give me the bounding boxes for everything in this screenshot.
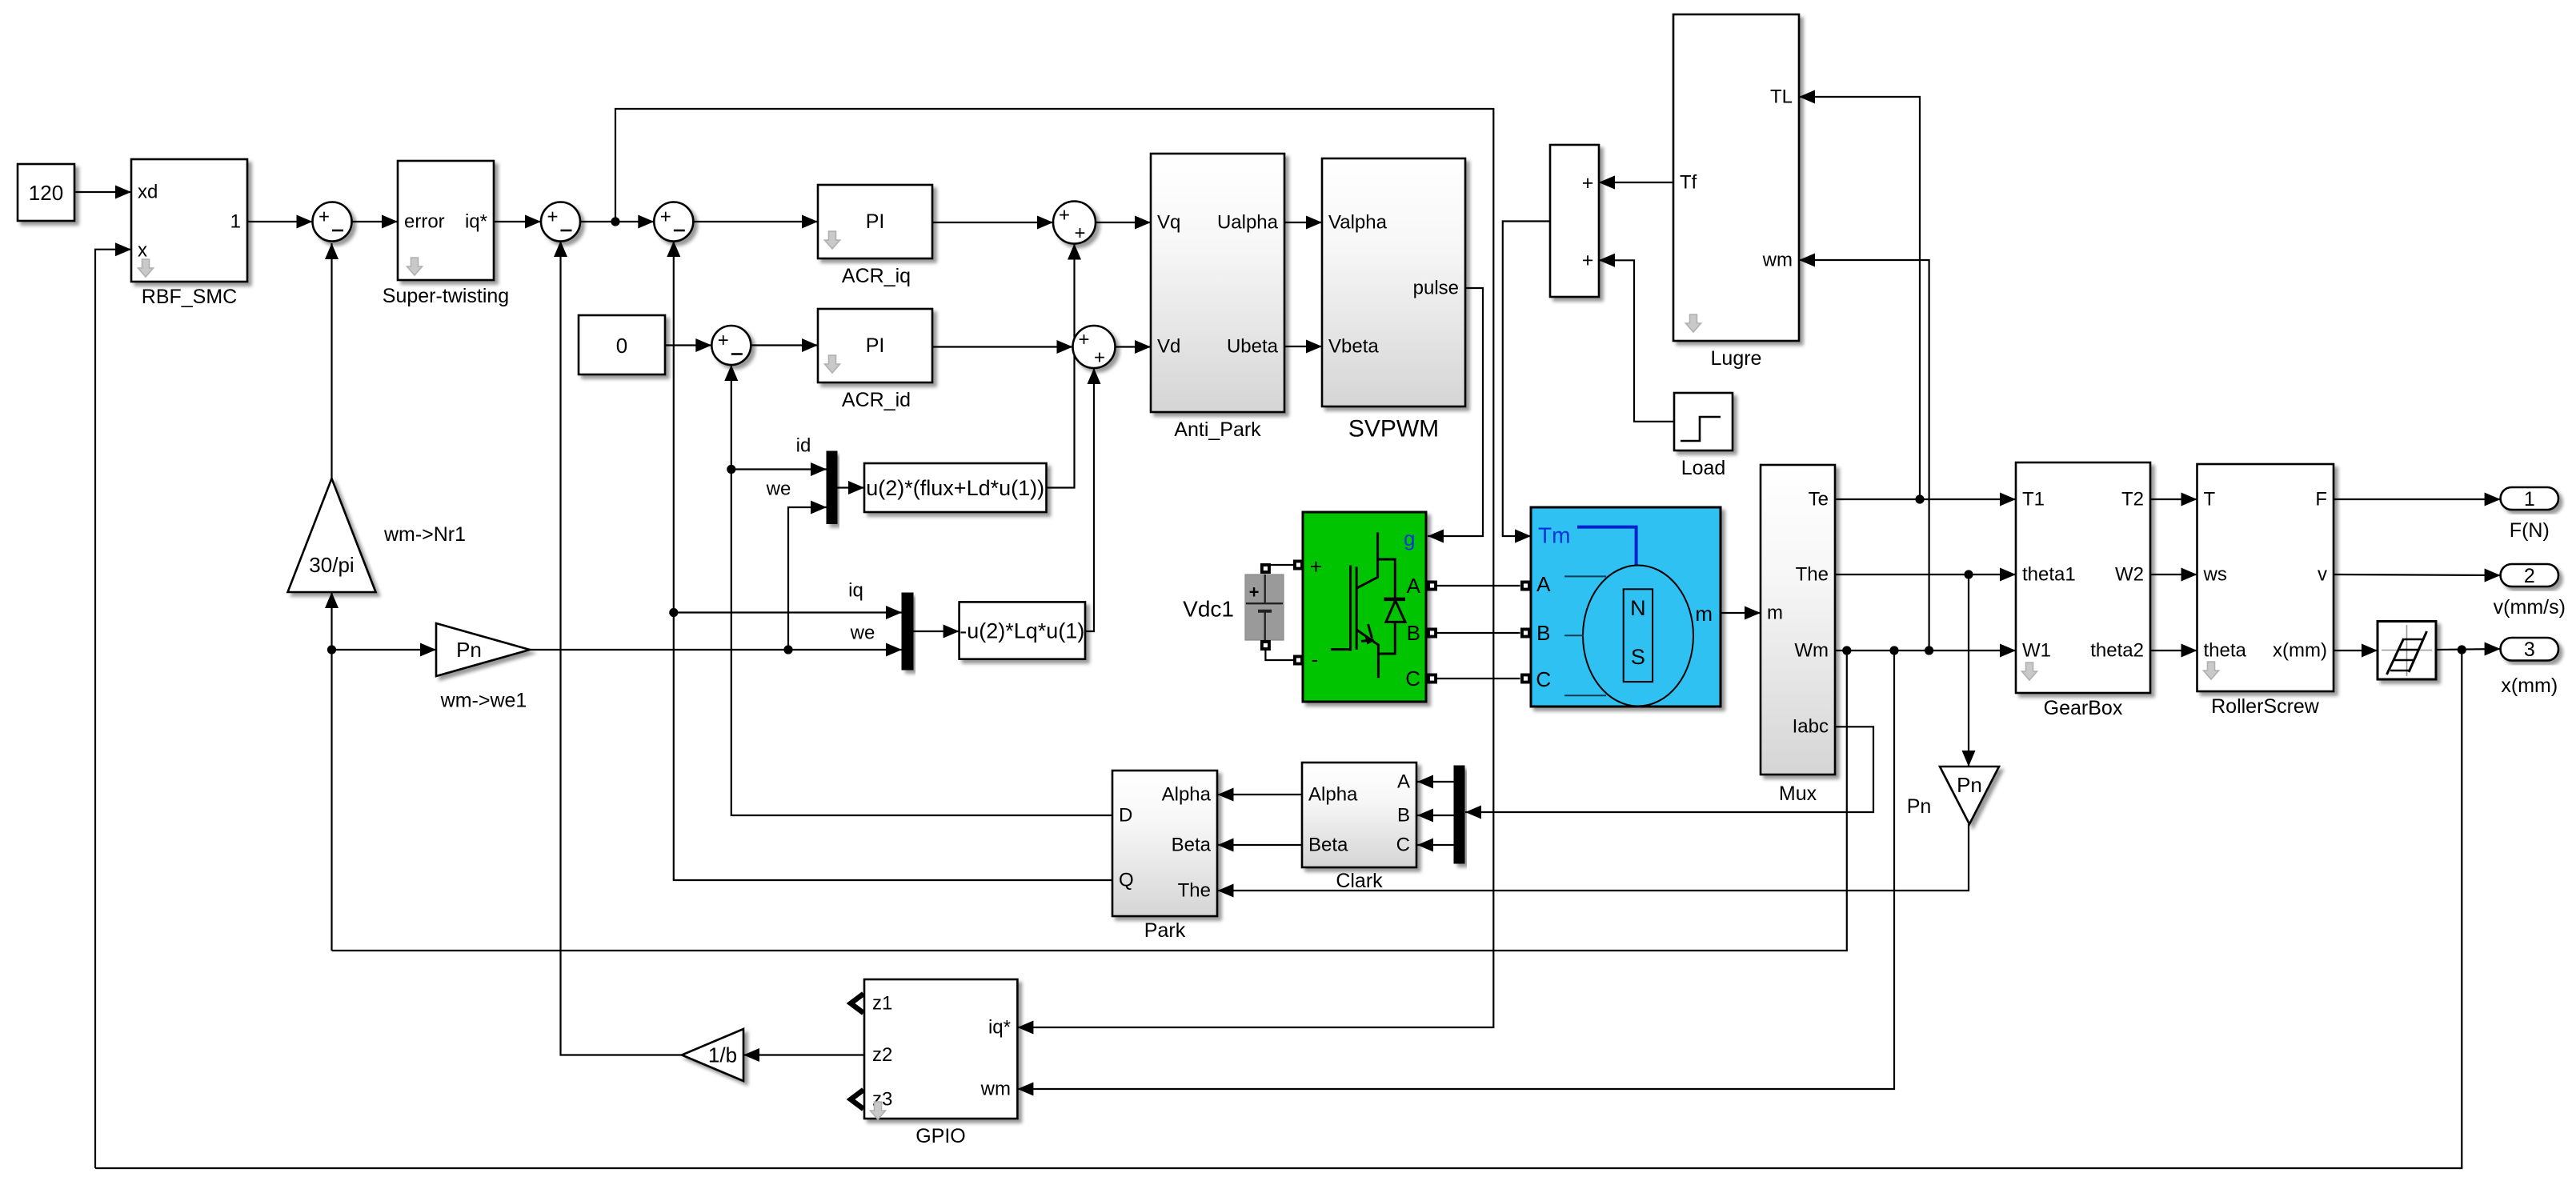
svg-text:id: id bbox=[796, 435, 811, 457]
svg-text:Clark: Clark bbox=[1336, 870, 1383, 892]
svg-text:+: + bbox=[1582, 250, 1594, 272]
gain 1/b (triangle left) bbox=[682, 1029, 743, 1081]
label we (Mux1 input) bbox=[766, 478, 791, 500]
node K: x(mm) feedback branch bbox=[2458, 645, 2466, 654]
svg-text:120: 120 bbox=[29, 181, 63, 205]
label Load bbox=[1681, 457, 1726, 479]
svg-text:Iabc: Iabc bbox=[1793, 716, 1829, 738]
wire: PMSM m output to measurement Mux bbox=[1721, 607, 1761, 620]
svg-text:T: T bbox=[2204, 489, 2216, 510]
gain 30/pi (triangle up) bbox=[288, 478, 376, 592]
svg-text:W2: W2 bbox=[2115, 564, 2144, 586]
svg-text:v: v bbox=[2318, 564, 2327, 586]
arrowhead PMSM Tm input bbox=[1515, 530, 1531, 543]
label we (Mux2 input) bbox=[850, 623, 875, 644]
node E: we branch up to Mux1 bbox=[783, 645, 792, 654]
svg-text:Lugre: Lugre bbox=[1711, 347, 1762, 370]
wire: inverter phase C to PMSM C bbox=[1437, 678, 1520, 679]
svg-text:+: + bbox=[660, 206, 671, 228]
wire: Mux Iabc output down and left to Demux input bbox=[1465, 727, 1873, 819]
subsystem Lugre friction model bbox=[1673, 14, 1799, 370]
svg-text:iq: iq bbox=[848, 580, 863, 602]
wire: GearBox theta2 to RollerScrew theta bbox=[2150, 644, 2197, 658]
svg-text:theta2: theta2 bbox=[2090, 640, 2144, 662]
svg-text:SVPWM: SVPWM bbox=[1348, 416, 1439, 442]
svg-text:Valpha: Valpha bbox=[1328, 212, 1388, 234]
wire: Lugre Tf to torque Sum plus input bbox=[1599, 176, 1673, 190]
svg-text:ACR_iq: ACR_iq bbox=[842, 265, 911, 287]
svg-text:z2: z2 bbox=[872, 1044, 892, 1066]
svg-text:Pn: Pn bbox=[1907, 795, 1932, 818]
wire: GearBox W2 to RollerScrew ws bbox=[2150, 568, 2197, 582]
label Pn (rotated gain name) bbox=[1907, 795, 1932, 818]
node J: Wm branch to GPIO wm bbox=[1889, 646, 1898, 655]
svg-text:C: C bbox=[1405, 667, 1420, 691]
wire: Park D (id) left and up to Sum4 minus input bbox=[724, 365, 1112, 815]
subsystem RBF_SMC bbox=[131, 159, 247, 308]
sum block (torque ++, vertical) bbox=[1550, 145, 1599, 297]
svg-text:Park: Park bbox=[1144, 919, 1186, 942]
svg-text:The: The bbox=[1796, 564, 1829, 586]
svg-text:error: error bbox=[404, 211, 445, 233]
arrowhead torque Sum top + input bbox=[1599, 176, 1615, 190]
Fcn block -u(2)*Lq*u(1) bbox=[959, 602, 1085, 659]
wire: Mux Te output to GearBox T1 bbox=[1835, 493, 2016, 506]
subsystem RollerScrew bbox=[2197, 464, 2334, 718]
svg-text:Ualpha: Ualpha bbox=[1217, 212, 1279, 234]
svg-text:1/b: 1/b bbox=[708, 1043, 737, 1067]
node A: iq* branch after Sum2 bbox=[611, 217, 619, 226]
node B: iq branch on Park Q feedback bbox=[669, 608, 678, 617]
wire: Vdc1 plus terminal to inverter + port bbox=[1265, 564, 1294, 566]
wire: inverter phase B to PMSM B bbox=[1437, 632, 1520, 634]
svg-text:+: + bbox=[1078, 329, 1089, 350]
svg-text:The: The bbox=[1178, 880, 1211, 902]
svg-text:Tf: Tf bbox=[1680, 172, 1697, 194]
wire: Sum1 to Super-twisting error bbox=[352, 215, 399, 229]
gain Pn (triangle right) bbox=[436, 623, 530, 676]
arrowhead torque Sum bottom + input bbox=[1599, 254, 1615, 267]
svg-text:GearBox: GearBox bbox=[2044, 697, 2123, 719]
wire: Sum5 to Anti_Park Vq bbox=[1096, 216, 1151, 230]
wire: Fcn1 output up to Sum5 plus input bbox=[1047, 244, 1082, 488]
wire: Sum3 to ACR_iq PI bbox=[693, 215, 818, 229]
wire: Load step output to torque Sum plus input bbox=[1599, 254, 1674, 422]
wire: constant 120 to RBF_SMC xd bbox=[74, 186, 131, 199]
wire: Fcn2 output up to Sum6 plus input bbox=[1085, 368, 1101, 631]
GPIO z1 unconnected port chevron bbox=[851, 994, 863, 1013]
svg-text:A: A bbox=[1397, 771, 1410, 793]
svg-text:Beta: Beta bbox=[1172, 835, 1212, 856]
node H: Wm branch to bottom bus bbox=[1842, 646, 1851, 655]
svg-text:Wm: Wm bbox=[1794, 640, 1829, 662]
svg-text:theta1: theta1 bbox=[2022, 564, 2076, 586]
label wm->Nr1 bbox=[383, 523, 466, 546]
svg-text:z1: z1 bbox=[872, 993, 892, 1015]
svg-text:Vd: Vd bbox=[1157, 336, 1180, 358]
wire: RollerScrew F to outport 1 F(N) bbox=[2334, 493, 2501, 506]
label id bbox=[796, 435, 811, 457]
svg-text:1: 1 bbox=[230, 211, 241, 233]
svg-text:wm: wm bbox=[980, 1079, 1011, 1100]
subsystem GPIO bbox=[864, 979, 1017, 1147]
outport 2 bbox=[2501, 564, 2558, 587]
wire: Mux1 output to Fcn u(2)*(flux+Ld*u(1)) bbox=[837, 481, 864, 494]
svg-text:C: C bbox=[1396, 835, 1410, 856]
svg-text:D: D bbox=[1119, 805, 1132, 827]
svg-text:Mux: Mux bbox=[1779, 783, 1817, 805]
svg-text:C: C bbox=[1536, 667, 1551, 691]
step source Load bbox=[1674, 393, 1733, 450]
subsystem Anti_Park bbox=[1151, 154, 1284, 441]
PI controller ACR_id bbox=[818, 309, 932, 411]
svg-text:0: 0 bbox=[616, 334, 627, 358]
demux bar (Iabc to A,B,C) bbox=[1454, 766, 1464, 863]
svg-text:T1: T1 bbox=[2022, 489, 2045, 510]
svg-text:g: g bbox=[1404, 526, 1415, 550]
wire: wm branch from node D to Pn gain bbox=[332, 643, 437, 657]
subsystem Super-twisting bbox=[383, 161, 509, 307]
svg-text:N: N bbox=[1630, 596, 1646, 620]
label x(mm) bbox=[2501, 675, 2558, 697]
wire: Mux2 output to Fcn -u(2)*Lq*u(1) bbox=[913, 625, 959, 639]
svg-text:W1: W1 bbox=[2022, 640, 2051, 662]
constant block 0 bbox=[579, 315, 665, 374]
svg-text:wm: wm bbox=[1762, 250, 1793, 271]
node F: Te / TL branch bbox=[1915, 494, 1924, 503]
wire: Clark Alpha to Park Alpha bbox=[1218, 788, 1303, 802]
measurement demux Mux block (gray) bbox=[1761, 465, 1835, 805]
wire: ACR_id PI to Sum6 bbox=[932, 340, 1073, 354]
backlash block bbox=[2378, 622, 2436, 680]
outport 3 bbox=[2501, 638, 2558, 661]
mux Mux1 (id,we) bbox=[827, 451, 837, 524]
svg-text:TL: TL bbox=[1770, 86, 1793, 108]
wire: Te branch from node F up to Lugre TL input bbox=[1799, 90, 1920, 500]
svg-text:GPIO: GPIO bbox=[915, 1125, 966, 1147]
GPIO z3 unconnected port chevron bbox=[851, 1090, 863, 1109]
svg-text:m: m bbox=[1695, 602, 1713, 626]
svg-text:Te: Te bbox=[1809, 489, 1829, 510]
svg-text:v(mm/s): v(mm/s) bbox=[2494, 596, 2566, 619]
svg-text:ACR_id: ACR_id bbox=[842, 389, 911, 411]
svg-text:Pn: Pn bbox=[1957, 773, 1982, 797]
wire: we branch from node E up to Mux1 we input bbox=[788, 501, 827, 651]
wire: wm from bottom bus up into 30/pi gain bbox=[325, 592, 339, 951]
svg-text:wm->Nr1: wm->Nr1 bbox=[383, 523, 466, 546]
svg-text:+: + bbox=[1249, 582, 1260, 603]
svg-text:x(mm): x(mm) bbox=[2501, 675, 2558, 697]
sum junction Sum1 (+-) bbox=[313, 202, 352, 242]
svg-text:B: B bbox=[1536, 621, 1550, 645]
wire: Pn gain output we to Mux2 we input bbox=[530, 643, 902, 657]
svg-text:1: 1 bbox=[2524, 488, 2535, 510]
sum junction Sum2 (+-) bbox=[541, 202, 580, 242]
constant block 120 bbox=[18, 164, 74, 221]
node G: The branch to Pn gain bbox=[1964, 570, 1973, 578]
svg-text:m: m bbox=[1767, 603, 1783, 624]
wire: Sum6 to Anti_Park Vd bbox=[1116, 340, 1152, 354]
wire: 30/pi gain output up to Sum1 minus input bbox=[325, 243, 339, 478]
svg-text:Load: Load bbox=[1681, 457, 1726, 479]
wire: GearBox T2 to RollerScrew T bbox=[2150, 493, 2197, 506]
mux Mux2 (iq,we) bbox=[902, 593, 913, 670]
DC source Vdc1 battery bbox=[1245, 563, 1284, 651]
node D: wm branch to Pn gain bbox=[327, 645, 336, 654]
svg-text:Ubeta: Ubeta bbox=[1227, 336, 1279, 358]
label F(N) bbox=[2510, 519, 2550, 542]
wire: Park Q (iq) left and up to Sum3 minus input bbox=[667, 241, 1112, 880]
svg-text:x: x bbox=[138, 240, 147, 262]
subsystem SVPWM bbox=[1322, 158, 1465, 442]
gain Pn (triangle down, theta path) bbox=[1940, 767, 1999, 824]
svg-text:S: S bbox=[1631, 645, 1645, 669]
svg-text:iq*: iq* bbox=[988, 1017, 1011, 1039]
svg-text:+: + bbox=[1310, 554, 1322, 578]
wire: RollerScrew x(mm) into Backlash bbox=[2334, 644, 2378, 658]
svg-text:RBF_SMC: RBF_SMC bbox=[142, 286, 237, 308]
wire: Demux phase B to Clark B bbox=[1417, 809, 1454, 823]
svg-text:Super-twisting: Super-twisting bbox=[383, 285, 509, 307]
subsystem Clark transform bbox=[1302, 763, 1416, 892]
wire: Pn gain output down and left to Park The input bbox=[1218, 824, 1969, 898]
svg-text:2: 2 bbox=[2524, 565, 2535, 587]
wire: iq branch from node B to Mux2 bbox=[674, 606, 902, 619]
sum junction Sum6 (++) bbox=[1073, 326, 1116, 369]
svg-text:Alpha: Alpha bbox=[1162, 784, 1212, 806]
subsystem GearBox bbox=[2016, 462, 2150, 719]
svg-text:Anti_Park: Anti_Park bbox=[1174, 418, 1261, 441]
svg-text:RollerScrew: RollerScrew bbox=[2211, 695, 2320, 718]
svg-text:+: + bbox=[318, 206, 330, 228]
wire: Anti_Park Ualpha to SVPWM Valpha bbox=[1284, 216, 1322, 230]
wire: Clark Beta to Park Beta bbox=[1218, 839, 1303, 852]
wire: SVPWM pulse down to inverter g input bbox=[1428, 288, 1483, 543]
sum junction Sum5 (++) bbox=[1053, 202, 1096, 245]
label Vdc1 bbox=[1183, 597, 1234, 622]
sum junction Sum4 (+-) bbox=[711, 326, 751, 365]
outport 1 bbox=[2501, 487, 2558, 510]
node I: Wm branch to Lugre wm bbox=[1925, 646, 1933, 655]
svg-text:A: A bbox=[1407, 574, 1421, 598]
wire: x feedback into RBF_SMC x (from bottom loop) bbox=[95, 242, 131, 1168]
wire: Super-twisting iq* to Sum2 bbox=[494, 215, 541, 229]
svg-text:theta: theta bbox=[2204, 640, 2247, 662]
svg-text:u(2)*(flux+Ld*u(1)): u(2)*(flux+Ld*u(1)) bbox=[866, 476, 1044, 500]
wire: Demux phase A to Clark A bbox=[1417, 775, 1454, 789]
wire: Anti_Park Ubeta to SVPWM Vbeta bbox=[1284, 340, 1322, 354]
svg-text:ws: ws bbox=[2203, 564, 2227, 586]
svg-text:PI: PI bbox=[866, 334, 885, 357]
node C: id branch on Park D feedback bbox=[727, 465, 735, 474]
svg-text:30/pi: 30/pi bbox=[309, 553, 354, 577]
svg-text:Beta: Beta bbox=[1308, 835, 1348, 856]
svg-text:+: + bbox=[1094, 347, 1105, 369]
svg-text:Vdc1: Vdc1 bbox=[1183, 597, 1234, 622]
svg-text:Vbeta: Vbeta bbox=[1328, 336, 1379, 358]
PMSM motor block (cyan) bbox=[1520, 507, 1721, 707]
svg-text:A: A bbox=[1536, 572, 1551, 596]
svg-text:-u(2)*Lq*u(1): -u(2)*Lq*u(1) bbox=[959, 619, 1084, 643]
wire: x(mm) feedback from node K down along bottom to far left bbox=[95, 650, 2462, 1168]
wire: id branch from node C to Mux1 bbox=[731, 462, 827, 476]
svg-text:B: B bbox=[1407, 621, 1420, 645]
svg-text:Tm: Tm bbox=[1538, 523, 1570, 548]
wire: Sum4 to ACR_id PI bbox=[751, 338, 818, 352]
wire: Mux The output to GearBox theta1 bbox=[1835, 568, 2016, 582]
label v(mm/s) bbox=[2494, 596, 2566, 619]
svg-text:B: B bbox=[1397, 805, 1410, 827]
wire: RBF_SMC output 1 to Sum1 bbox=[247, 215, 313, 229]
wire: ACR_iq PI to Sum5 bbox=[932, 216, 1053, 230]
svg-text:F: F bbox=[2315, 489, 2327, 510]
wire: RollerScrew v to outport 2 v(mm/s) bbox=[2334, 569, 2501, 582]
svg-text:PI: PI bbox=[866, 210, 885, 233]
svg-text:x(mm): x(mm) bbox=[2273, 640, 2327, 662]
svg-text:Pn: Pn bbox=[456, 638, 482, 662]
svg-text:we: we bbox=[766, 478, 791, 500]
wire: Mux Wm output to GearBox W1 bbox=[1835, 644, 2016, 658]
svg-text:-: - bbox=[1312, 647, 1319, 671]
svg-text:wm->we1: wm->we1 bbox=[440, 690, 527, 712]
wire: inverter phase A to PMSM A bbox=[1437, 585, 1520, 586]
wire: Sum2 output to Sum3 (through node A) bbox=[580, 215, 654, 229]
svg-text:+: + bbox=[1582, 172, 1594, 194]
svg-text:Q: Q bbox=[1119, 870, 1134, 891]
label wm->we1 bbox=[440, 690, 527, 712]
wire: 1/b gain output up to Sum2 minus input bbox=[554, 241, 682, 1055]
wire: Backlash output to outport 3 x(mm) bbox=[2436, 643, 2501, 656]
svg-text:Vq: Vq bbox=[1157, 212, 1180, 234]
svg-text:Alpha: Alpha bbox=[1308, 784, 1358, 806]
svg-text:we: we bbox=[850, 623, 875, 644]
svg-text:pulse: pulse bbox=[1413, 278, 1459, 299]
PI controller ACR_iq bbox=[818, 185, 932, 287]
svg-text:F(N): F(N) bbox=[2510, 519, 2550, 542]
svg-text:T2: T2 bbox=[2121, 489, 2144, 510]
wire: constant 0 to Sum4 bbox=[665, 338, 711, 352]
Fcn block u(2)*(flux+Ld*u(1)) bbox=[864, 463, 1047, 512]
svg-text:3: 3 bbox=[2524, 639, 2535, 661]
svg-text:+: + bbox=[718, 330, 729, 351]
svg-text:iq*: iq* bbox=[465, 211, 487, 233]
wire: Vdc1 minus terminal to inverter - port bbox=[1265, 649, 1294, 660]
svg-text:xd: xd bbox=[138, 182, 158, 203]
sum junction Sum3 (+-) bbox=[654, 202, 693, 242]
wire: torque Sum output down to PMSM Tm input bbox=[1503, 222, 1550, 543]
wire: Wm branch from node J down and left to GPIO wm input bbox=[1017, 651, 1894, 1096]
wire: GPIO z2 output to 1/b gain bbox=[743, 1048, 864, 1062]
wire: Demux phase C to Clark C bbox=[1417, 839, 1454, 852]
wire: Wm branch from node H down along bottom bus to 30/pi bbox=[332, 651, 1847, 951]
subsystem Park transform bbox=[1112, 771, 1217, 942]
wire: iq* net from node A up over to GPIO iq* input bbox=[615, 109, 1493, 1035]
label iq bbox=[848, 580, 863, 602]
svg-text:+: + bbox=[1074, 222, 1085, 244]
wire: The branch from node G down into Pn gain bbox=[1962, 574, 1976, 767]
svg-text:+: + bbox=[547, 206, 558, 228]
inverter bridge block (green) bbox=[1293, 512, 1437, 702]
wire: Wm branch from node I up to Lugre wm input bbox=[1799, 254, 1929, 651]
svg-text:+: + bbox=[1059, 205, 1070, 226]
